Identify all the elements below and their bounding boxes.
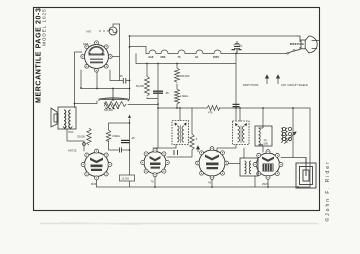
svg-text:25,000: 25,000 bbox=[122, 178, 130, 181]
svg-text:.25: .25 bbox=[131, 136, 135, 140]
svg-text:14,: 14, bbox=[264, 138, 268, 142]
svg-text:ANT.25: ANT.25 bbox=[68, 149, 77, 153]
svg-text:©John F. Rider: ©John F. Rider bbox=[324, 160, 331, 221]
svg-text:MODEL 1025: MODEL 1025 bbox=[41, 8, 46, 46]
svg-text:250,000: 250,000 bbox=[180, 74, 190, 78]
svg-text:ANT.: ANT. bbox=[86, 30, 92, 34]
svg-text:500: 500 bbox=[264, 142, 269, 146]
svg-text:6D6: 6D6 bbox=[91, 182, 97, 186]
svg-text:25Z5: 25Z5 bbox=[213, 55, 219, 59]
svg-text:ANT. CIRCUIT SHIELD: ANT. CIRCUIT SHIELD bbox=[281, 83, 308, 87]
svg-text:0.1: 0.1 bbox=[239, 44, 243, 48]
svg-text:.5: .5 bbox=[195, 137, 198, 141]
svg-text:6A8: 6A8 bbox=[83, 42, 89, 46]
svg-text:43: 43 bbox=[195, 55, 198, 59]
svg-text:PARTITIONS: PARTITIONS bbox=[243, 83, 259, 87]
svg-text:1 MEG.: 1 MEG. bbox=[180, 94, 189, 98]
svg-text:.05: .05 bbox=[165, 91, 169, 95]
svg-text:75: 75 bbox=[151, 180, 155, 184]
svg-text:43: 43 bbox=[208, 181, 212, 185]
svg-text:6A8: 6A8 bbox=[149, 55, 154, 59]
svg-text:3 MEG: 3 MEG bbox=[112, 134, 120, 138]
svg-text:6D6: 6D6 bbox=[161, 55, 166, 59]
svg-text:50,000: 50,000 bbox=[136, 84, 144, 88]
svg-text:OSC: OSC bbox=[68, 130, 74, 134]
svg-text:SPKR PLUG: SPKR PLUG bbox=[290, 43, 304, 46]
svg-text:470: 470 bbox=[208, 111, 213, 115]
svg-text:500,000: 500,000 bbox=[104, 109, 113, 112]
svg-text:75: 75 bbox=[178, 55, 181, 59]
svg-text:25Z6: 25Z6 bbox=[262, 182, 269, 186]
svg-text:25,000: 25,000 bbox=[77, 135, 85, 139]
svg-text:.05: .05 bbox=[119, 74, 123, 78]
